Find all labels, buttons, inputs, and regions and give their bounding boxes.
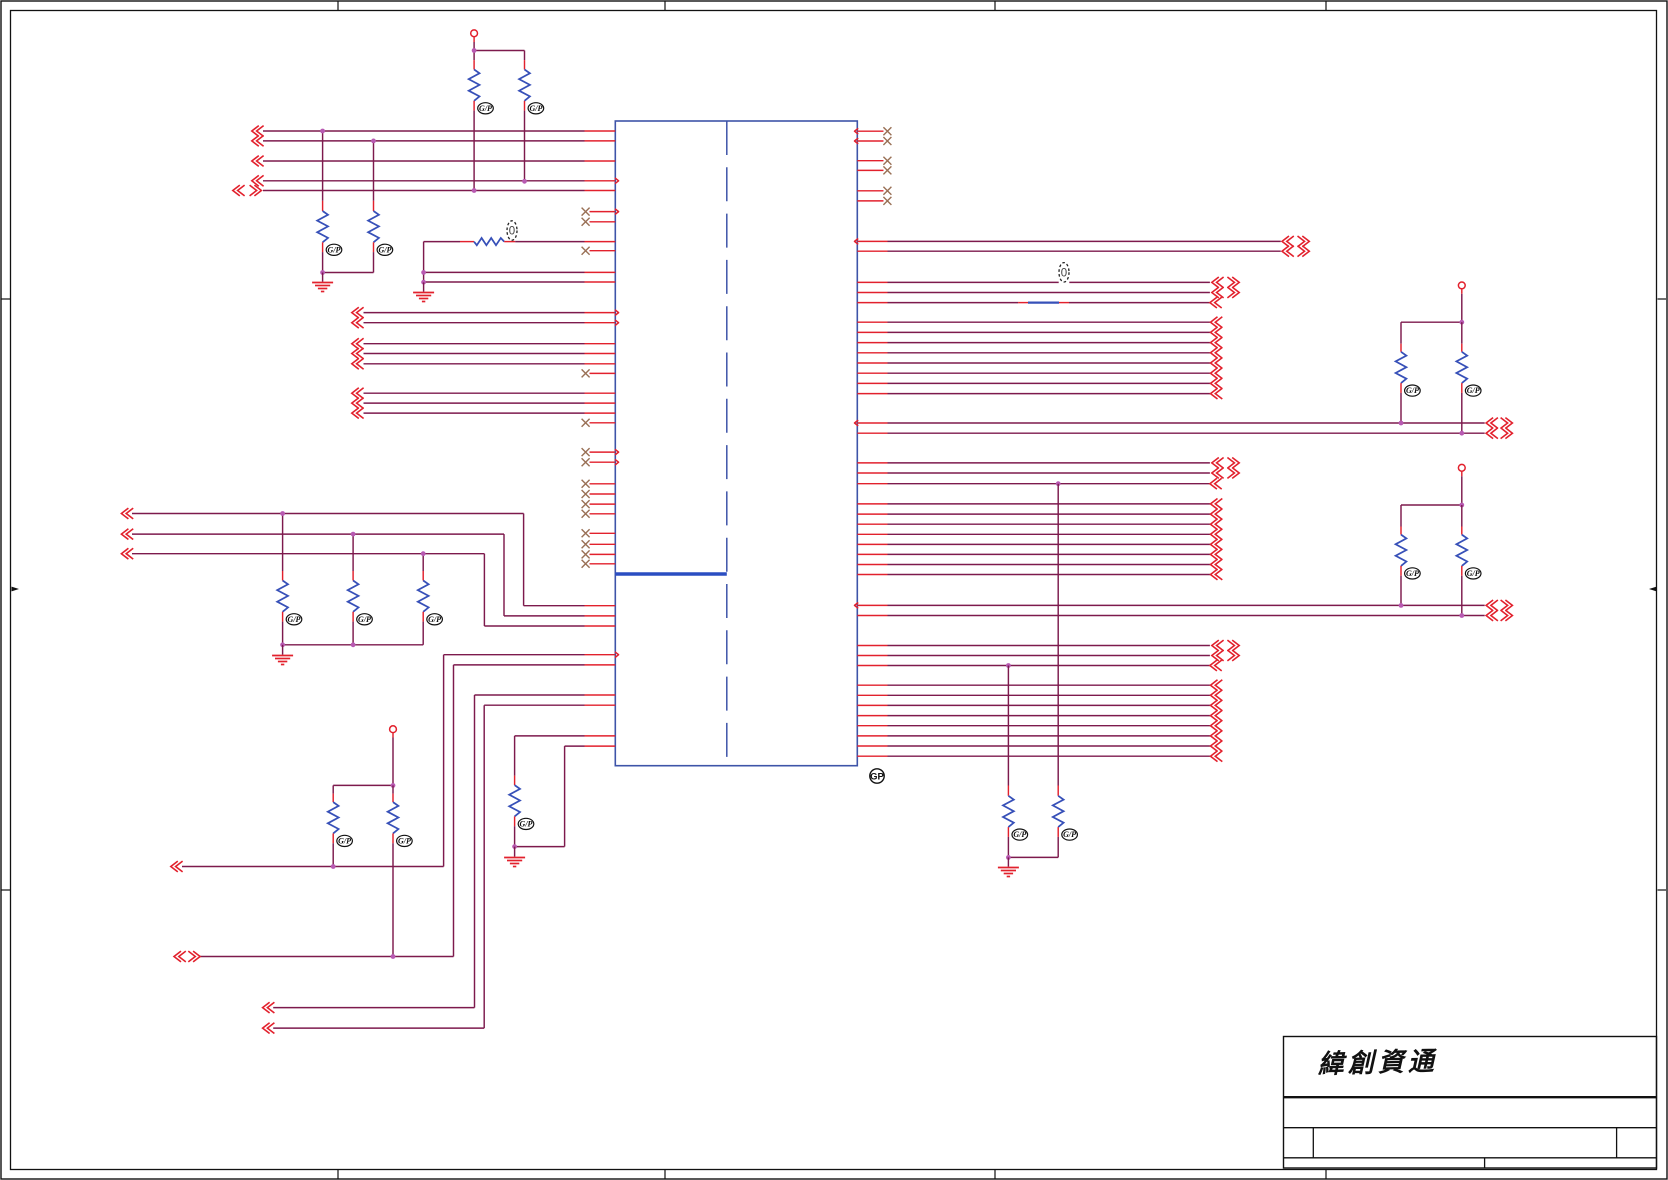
svg-text:G/P: G/P	[398, 837, 411, 846]
svg-text:G/P: G/P	[1063, 830, 1076, 839]
svg-text:0: 0	[509, 226, 515, 238]
svg-text:G/P: G/P	[378, 245, 391, 254]
svg-text:G/P: G/P	[529, 104, 542, 113]
svg-text:G/P: G/P	[288, 615, 301, 624]
svg-text:G/P: G/P	[1013, 830, 1026, 839]
svg-text:G/P: G/P	[428, 615, 441, 624]
svg-text:G/P: G/P	[1406, 569, 1419, 578]
svg-text:0: 0	[1061, 267, 1067, 279]
svg-text:G/P: G/P	[328, 245, 341, 254]
svg-text:G/P: G/P	[1467, 569, 1480, 578]
svg-text:G/P: G/P	[1467, 386, 1480, 395]
svg-text:G/P: G/P	[479, 104, 492, 113]
svg-text:GP: GP	[870, 772, 884, 783]
svg-text:緯創資通: 緯創資通	[1316, 1047, 1438, 1079]
svg-text:G/P: G/P	[358, 615, 371, 624]
svg-text:G/P: G/P	[338, 837, 351, 846]
svg-text:G/P: G/P	[520, 820, 533, 829]
svg-text:G/P: G/P	[1406, 386, 1419, 395]
